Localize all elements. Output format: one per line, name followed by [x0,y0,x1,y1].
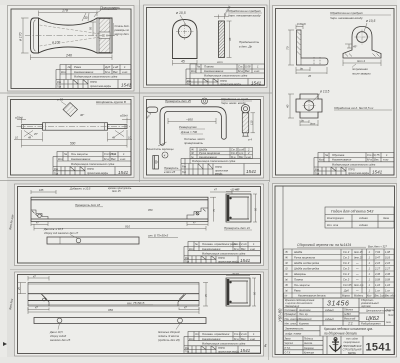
svg-text:шифр. номер: шифр. номер [285,332,302,336]
angle 30 note [82,13,89,21]
shaft body [22,123,128,131]
margin strip line [282,186,284,355]
top scan margin [0,0,400,5]
L-bracket vertical dim (left) [288,30,294,65]
parts list header band [283,293,285,298]
registration mark left edge [3,342,7,346]
title block right cell: drawing type [360,298,379,308]
svg-text:Заказ: Заказ [285,339,291,341]
washer note 2 lines underlined [164,166,179,174]
section A dims [226,192,257,223]
cross-piece bottom dims [300,120,318,126]
bottom-left tiny rows [285,338,315,355]
L-bracket side view [297,30,329,65]
svg-text:ла дборочные детали: ла дборочные детали [323,332,357,336]
svg-text:Замка(наш): Замка(наш) [285,304,299,308]
title block left description cell [285,298,315,308]
panel P3 sheet (angle bracket and lug) [273,6,397,178]
bar A right end dims [187,197,216,226]
svg-text:31456: 31456 [327,301,349,308]
svg-text:Вяземский: Вяземский [299,318,312,321]
svg-text:Анисимов: Анисимов [298,309,311,312]
svg-text:ЦКБ2: ЦКБ2 [366,316,379,322]
main title block grid [284,298,395,355]
svg-text:Подпись: Подпись [304,338,314,341]
lower flat strip with hole [47,237,139,244]
dimension 240 (bottom) [31,55,113,61]
P6 title block grid [184,242,261,264]
lug front view (rounded top with flanges) [343,27,381,59]
signature rows [285,309,335,326]
lug width dim [345,44,352,48]
L-bracket hole (hidden lines) [314,57,320,65]
stacked notes under dim [179,125,205,145]
cut line left of main title panel [268,182,270,360]
roller hub hatched band [99,19,110,53]
svg-text:О.Т.К.: О.Т.К. [285,352,292,354]
cross-piece left dim [288,94,294,118]
bar A left end step detail [31,210,48,219]
bar A left end dim 47 [31,221,48,226]
strip hole leader notes left (3 lines) [49,330,71,342]
cut line above bottom panels [0,180,270,182]
shaft centerline [17,126,131,128]
parts list rows text [284,250,391,293]
strip leader note 2 lines [43,227,79,235]
washer detail bottom-left [153,156,159,170]
roller (spool) body outline [31,18,113,53]
diamond keyway detail (hatched) [63,103,78,117]
P3 title block texts [315,153,389,175]
P5 title block grid [181,159,261,176]
shipyard name text [343,338,362,356]
lower strip with two holes [34,318,206,324]
P2 title block texts [187,65,260,86]
panel P5 sheet (bent handle rod) [144,97,264,179]
cut line between bottom panels A and B [10,269,268,271]
shipyard emblem (anchor crest) [330,338,342,353]
right narrow column [385,310,395,324]
svg-text:Проверил: Проверил [285,313,297,316]
svg-text:1:1: 1:1 [348,322,353,326]
svg-text:Листов: Листов [385,310,395,312]
dimension 178 (top) [39,11,98,17]
right scan margin [397,0,400,363]
grip part right [241,105,249,137]
dimension d170 (left) [21,18,29,53]
svg-text:Составил: Составил [285,309,298,312]
svg-text:Чертил: Чертил [285,343,294,345]
P5 title block texts [182,160,236,175]
side view thickness dim [214,15,229,20]
left dims of bar B [17,276,208,311]
svg-text:чертеж: чертеж [361,305,371,308]
P2 title block grid [186,64,265,86]
svg-text:Смирнов: Смирнов [304,348,314,350]
bar A right end step detail [187,208,208,219]
rod end tick left [158,142,167,146]
panel P2 sheet (tab with hole) [144,5,268,88]
svg-text:Масштаб: Масштаб [344,318,356,321]
svg-text:годный: годный [325,309,334,312]
svg-text:Лио. кр.: Лио. кр. [298,313,308,316]
svg-text:Нач. констр.: Нач. констр. [285,318,300,321]
svg-text:№543: №543 [344,313,351,316]
P7 title block texts [185,332,256,353]
top annotation row [69,187,240,194]
side view height dim [227,21,232,58]
panel P6 sheet (long channel bar A) [15,184,264,266]
L-bracket small top dim [296,25,303,30]
cut line between middle column and right column [269,0,271,182]
note top right (2 lines, underlined) [228,9,262,18]
svg-text:Нач. сект.: Нач. сект. [285,323,298,326]
note top-right 2 lines [221,97,249,105]
P7 title block grid [184,332,261,354]
P1 title block texts [57,65,128,89]
section B dims [226,276,256,307]
roller centerline [25,35,118,37]
svg-text:№№: №№ [386,321,391,324]
P5 parts rows [190,148,253,159]
cross-piece part with hole [296,94,322,118]
acceptance table 'Goden dlya ob'ekta 543' [325,207,394,228]
panel P4 sheet (shaft drawing) [8,97,135,178]
cut line between top and middle rows [0,92,272,94]
overall length dim 500 [22,142,128,148]
dimension 45 below tab [173,60,198,66]
tab hole [178,25,191,38]
lug note below (2 lines) [352,67,371,76]
cross-piece hole [304,101,314,111]
strip hole leader notes right (3 lines) [158,330,180,342]
svg-text:ВЕРФЬ: ВЕРФЬ [348,352,356,355]
svg-text:Анисим.: Анисим. [303,342,313,345]
top-left small dims [31,190,232,194]
middle small cells [344,309,356,326]
svg-text:П.Т.К.: П.Т.К. [285,348,291,350]
P4 title block grid [53,152,131,176]
svg-text:пищепромышл.: пищепромышл. [344,342,361,344]
panel P1 sheet (roller drawing) [8,6,135,92]
left scan margin [0,0,7,363]
main bar B outline (channel side view) [28,283,199,307]
small pill fitting top-left [147,107,158,113]
tab front view [173,20,198,59]
P6 title block texts [185,242,256,263]
svg-text:НИКОЛАЕВСКАЯ: НИКОЛАЕВСКАЯ [343,345,362,348]
svg-text:Заменяемость: Заменяемость [285,327,304,331]
svg-text:Лист: Лист [387,315,394,317]
bottom scan margin [0,357,400,363]
tab side view (hatched strip) [219,21,225,58]
svg-text:Крышка ледовых шпигатов цра-: Крышка ледовых шпигатов цра- [324,327,373,331]
left journal dims and chamfer leaders [14,118,43,142]
mid dim 910 under bar [34,224,206,231]
dim 650 inside bend [168,118,216,124]
vertical dim 95 near right [90,22,96,36]
note right middle [239,40,260,49]
P1 title block grid [56,65,131,89]
svg-text:Рыбсудопроект: Рыбсудопроект [361,322,382,326]
channel cross-section detail B [226,278,250,306]
P3 title block grid [314,153,394,176]
bar B right end step detail [178,294,186,306]
svg-text:1541: 1541 [366,342,392,354]
bent rod outline [160,107,226,145]
lug bottom dims [343,60,381,67]
P4 title block texts [54,152,126,175]
cut line between columns (left/middle) [139,0,141,182]
dim 950 under bar B [28,307,199,314]
main bar A outline (channel side view) [31,197,208,221]
svg-text:мин. судов: мин. судов [346,338,358,341]
item balloon 2 [202,98,208,104]
note top right (2 lines underlined) [330,11,364,20]
material note block right [114,24,130,36]
washer balloon [162,152,168,158]
channel cross-section detail A [226,194,251,222]
svg-text:годный: годный [325,318,334,321]
parts list table grid [284,249,395,298]
svg-text:Объект: Объект [344,309,353,312]
generatrix diagonal dashed lines [40,25,112,36]
grip dims [251,113,256,133]
panel P7 sheet (long channel bar B) [15,272,264,356]
svg-text:Корнеев: Корнеев [299,323,309,326]
svg-text:СТРОИТЕЛЬНАЯ: СТРОИТЕЛЬНАЯ [343,349,362,352]
object name band [285,327,304,336]
svg-text:Кузнецов: Кузнецов [304,352,315,354]
panel P8 sheet (main title block and parts list) [273,184,397,358]
right journal dims and chamfer leaders [108,118,133,142]
lug hole [357,32,368,43]
bar B left end step detail [41,294,49,306]
L-bracket bottom dims [296,67,327,74]
